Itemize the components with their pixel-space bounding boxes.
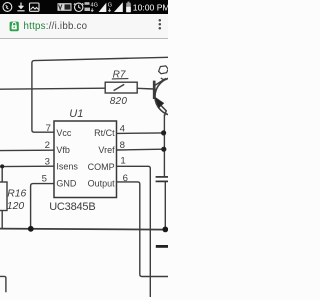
status bar xyxy=(0,0,168,14)
IC pin labels inside xyxy=(56,128,115,188)
wire: bottom ground rail xyxy=(0,229,168,230)
wire: R16 bottom lead to rail xyxy=(1,211,3,229)
svg-text:UC3845B: UC3845B xyxy=(49,201,95,213)
node: junction dot rail right xyxy=(162,227,168,233)
svg-text:4: 4 xyxy=(120,123,126,134)
svg-text:5: 5 xyxy=(42,174,47,185)
wire: GND pin 5 down to bottom rail xyxy=(31,184,54,227)
signal triangle 1 xyxy=(99,3,107,12)
wire: pin 4 RtCt to right bus xyxy=(117,132,164,135)
node: junction dot pin3/R16 xyxy=(0,164,4,168)
svg-text:GND: GND xyxy=(56,178,77,188)
resistor R7 xyxy=(105,82,137,93)
op-amp/PWM IC U1 box xyxy=(54,121,117,198)
wire: Vfb pin 2 xyxy=(0,149,54,151)
svg-text:2: 2 xyxy=(45,140,50,151)
svg-text:120: 120 xyxy=(7,201,25,212)
node: junction dot rail left xyxy=(28,226,34,232)
download notification icon xyxy=(17,3,24,11)
svg-text:Vref: Vref xyxy=(98,145,115,155)
wire: below capacitor to bottom rail dot xyxy=(164,182,166,227)
label R7 xyxy=(112,69,129,80)
alarm clock notification icon xyxy=(74,3,84,11)
schematic drawing xyxy=(0,0,168,300)
wire: pin 1 COMP right and down xyxy=(117,166,151,297)
wire: bottom-left stub corner xyxy=(0,276,6,292)
svg-text:6: 6 xyxy=(123,173,128,184)
VID badge notification icon xyxy=(58,3,72,11)
svg-text:8: 8 xyxy=(120,140,125,151)
IC pin numbers xyxy=(42,123,128,185)
svg-text:7: 7 xyxy=(46,123,51,134)
whatsapp notification icon xyxy=(3,3,12,12)
battery icon xyxy=(126,2,131,13)
svg-text:COMP: COMP xyxy=(88,162,115,172)
browser url bar xyxy=(0,14,168,39)
transistor Q (PNP, clipped at right edge) xyxy=(154,78,193,117)
svg-text:U1: U1 xyxy=(69,108,83,120)
svg-text:Output: Output xyxy=(88,178,116,188)
wire: Isens pin 3 xyxy=(0,165,54,167)
kebab menu xyxy=(159,19,162,30)
svg-text:Rt/Ct: Rt/Ct xyxy=(94,128,115,138)
wire: R7 to transistor base xyxy=(137,87,153,90)
secure lock favicon (green square with white padlock) xyxy=(10,21,19,31)
wire: pin 6 Output right and down to bottom right corner xyxy=(117,182,169,277)
svg-text:1: 1 xyxy=(120,156,125,167)
wire: Vcc top rail with corner, down to pin 7 xyxy=(32,57,168,132)
image/screenshot notification icon xyxy=(30,3,40,11)
signal triangle 2 xyxy=(114,2,123,12)
svg-text:Vfb: Vfb xyxy=(56,145,70,155)
svg-text:R16: R16 xyxy=(7,189,26,200)
capacitor C (right, between bus and rail) xyxy=(156,177,168,182)
net speed tiny text xyxy=(85,2,91,11)
label Q (clipped designator above transistor) xyxy=(159,66,169,80)
node: junction dot pin8/bus xyxy=(161,147,166,152)
wire: R16 top lead from pin3 node xyxy=(1,166,3,182)
svg-text:Isens: Isens xyxy=(56,161,78,171)
svg-text:820: 820 xyxy=(110,96,128,107)
wire: right vertical bus from collector to capacitor xyxy=(163,115,165,177)
node: junction dot pin4/bus xyxy=(161,130,166,135)
resistor R16 (clipped at left edge) xyxy=(0,182,7,211)
svg-text:3: 3 xyxy=(45,156,50,167)
svg-text:Vcc: Vcc xyxy=(56,128,72,138)
capacitor plate (thick, bottom right) xyxy=(156,245,168,248)
wire: pin 8 Vref to right bus xyxy=(117,148,164,151)
wire: long horizontal feed to R7 xyxy=(0,88,105,89)
